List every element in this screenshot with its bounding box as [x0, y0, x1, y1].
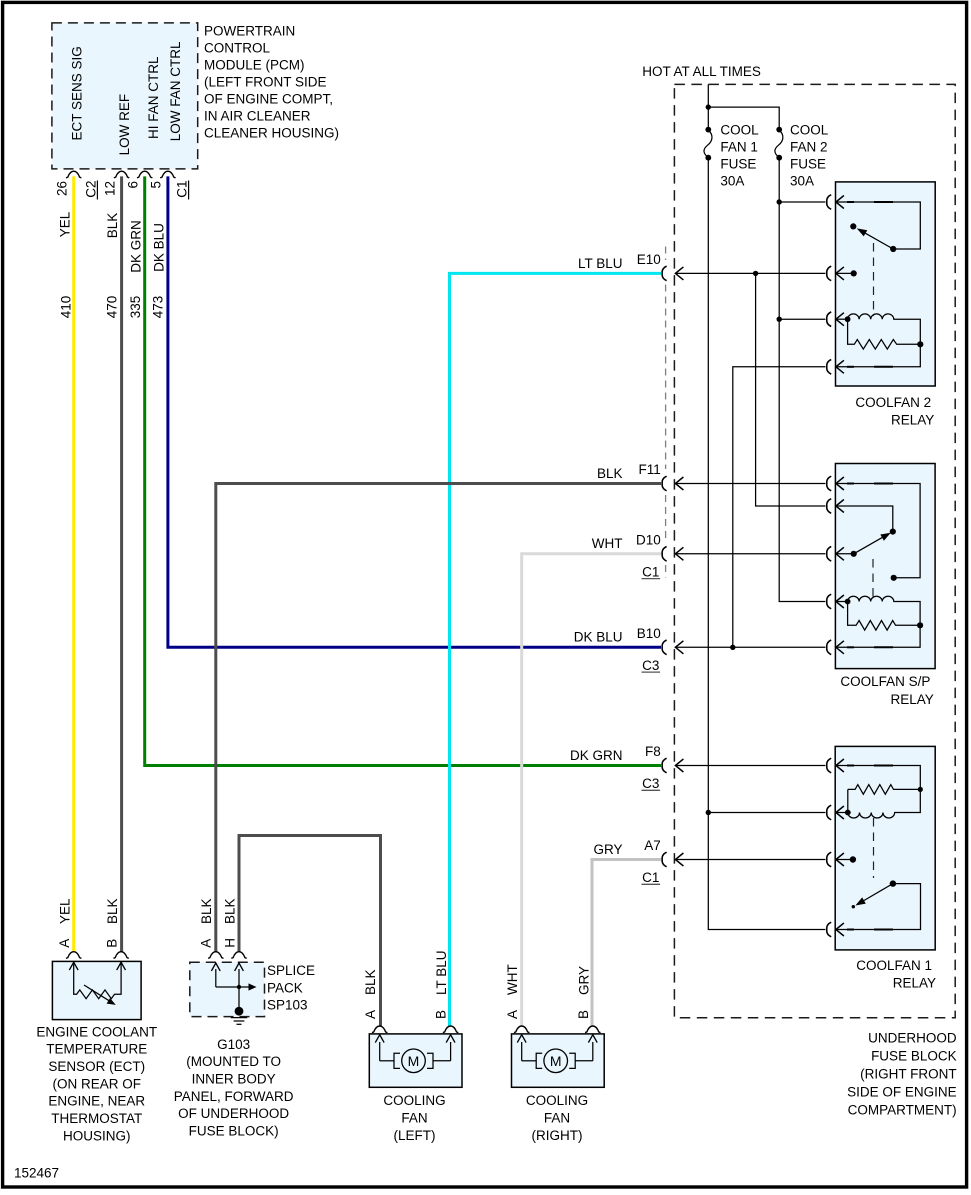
wire E10 row to CF2 pin2 and SP pin2 branch: [675, 271, 825, 506]
G103 internal pin A arrow: [211, 963, 220, 987]
fuse F1 COOL FAN 1 30A: [704, 123, 759, 189]
wire BLK from F11 to G103 A: [216, 484, 661, 953]
svg-text:FUSE: FUSE: [790, 156, 826, 171]
SP103 label text: [267, 963, 315, 1013]
fan left pin A connector: [363, 969, 388, 1032]
svg-text:C3: C3: [642, 658, 659, 673]
svg-text:COOL: COOL: [790, 123, 829, 138]
svg-text:THERMOSTAT: THERMOSTAT: [51, 1111, 142, 1126]
wire 473 DK BLU from PCM 5 to B10: [151, 176, 661, 647]
SP resistor R: [848, 602, 924, 631]
CF1 actuator dashed link: [873, 818, 875, 878]
cooling fan right motor box: [512, 1034, 605, 1087]
svg-text:(LEFT): (LEFT): [394, 1128, 436, 1143]
SP actuator dashed link: [872, 559, 874, 598]
CF1 pin 3: [827, 852, 856, 867]
cooling fan left motor box: [369, 1034, 462, 1087]
splice pack G103 box: [190, 962, 265, 1016]
connector D10 C1: [592, 532, 684, 579]
svg-text:ECT SENS SIG: ECT SENS SIG: [69, 46, 84, 140]
svg-text:COOLING: COOLING: [383, 1093, 445, 1108]
svg-text:D10: D10: [636, 532, 661, 547]
SP pin 2: [827, 499, 896, 535]
CF1 pin 4: [827, 884, 921, 937]
SP pin 1: [827, 476, 920, 581]
svg-text:A: A: [57, 939, 72, 948]
svg-text:C1: C1: [642, 564, 659, 579]
svg-text:E10: E10: [637, 252, 661, 267]
PCM pin 12 connector: [102, 171, 129, 196]
svg-text:COOLFAN S/P: COOLFAN S/P: [840, 674, 930, 689]
svg-text:B: B: [576, 1010, 591, 1019]
fan right pin B connector: [576, 966, 601, 1033]
connector F8 C3: [570, 744, 683, 791]
fan right pin A connector: [505, 964, 530, 1032]
wire CF2 relay pin1 feed: [777, 199, 826, 204]
svg-text:RELAY: RELAY: [891, 692, 934, 707]
svg-text:BLK: BLK: [223, 898, 238, 924]
svg-text:(ON REAR OF: (ON REAR OF: [53, 1076, 142, 1091]
svg-text:FAN 1: FAN 1: [720, 140, 758, 155]
svg-text:BLK: BLK: [105, 213, 120, 239]
wire F8 row to CF1 pin1: [675, 765, 825, 767]
relay K2 COOLFAN 2 RELAY box: [836, 182, 936, 386]
svg-text:INNER BODY: INNER BODY: [192, 1072, 276, 1087]
wire BLK from G103 H to cooling fan left A: [239, 836, 381, 1027]
svg-text:DK GRN: DK GRN: [129, 220, 144, 273]
svg-text:5: 5: [149, 181, 164, 189]
wire B10 row to SP pin5: [675, 646, 825, 648]
svg-text:COOLFAN 1: COOLFAN 1: [856, 958, 932, 973]
CF2 switch SW: [850, 223, 896, 252]
svg-text:(RIGHT): (RIGHT): [532, 1128, 583, 1143]
drawing number 152467: [14, 1166, 59, 1181]
CF2 coil L: [827, 312, 921, 344]
svg-text:LOW REF: LOW REF: [117, 94, 132, 156]
CF1 pin 1: [827, 758, 921, 789]
underhood fuse block dashed box: [674, 84, 955, 1017]
G103 pin H connector: [222, 898, 246, 958]
svg-text:F11: F11: [639, 462, 661, 477]
G103 splice arrow: [216, 983, 257, 990]
G103 pin A connector: [199, 898, 224, 958]
svg-text:ENGINE, NEAR: ENGINE, NEAR: [48, 1094, 145, 1109]
svg-text:335: 335: [128, 296, 143, 319]
SP pin 5: [827, 625, 920, 654]
cooling fan right label: [526, 1093, 588, 1143]
motor M1 cooling fan left: [375, 1035, 455, 1073]
op PCM module U1 (Powertrain Control Module): [52, 23, 198, 169]
svg-text:C1: C1: [642, 870, 659, 885]
G103 internal pin H arrow: [235, 963, 244, 1011]
svg-text:CLEANER HOUSING): CLEANER HOUSING): [204, 125, 339, 140]
CF2 pin 4: [827, 344, 921, 374]
svg-text:DK BLU: DK BLU: [574, 630, 623, 645]
CF2 resistor R: [848, 319, 924, 349]
node feed junction: [706, 104, 711, 109]
svg-text:H: H: [222, 938, 237, 948]
svg-text:HOUSING): HOUSING): [63, 1128, 131, 1143]
ECT pin A connector: [57, 898, 82, 958]
ECT sensor box: [52, 961, 141, 1019]
CF2 pin 1: [827, 195, 921, 249]
svg-text:YEL: YEL: [58, 211, 73, 237]
svg-text:DK GRN: DK GRN: [570, 748, 623, 763]
wire 410 YEL from PCM 26 to ECT A: [58, 176, 74, 952]
svg-text:C2: C2: [83, 181, 98, 198]
svg-text:(LEFT FRONT SIDE: (LEFT FRONT SIDE: [204, 74, 327, 89]
fuse F2 COOL FAN 2 30A: [775, 123, 829, 189]
svg-text:SENSOR (ECT): SENSOR (ECT): [48, 1059, 145, 1074]
svg-text:B: B: [105, 939, 120, 948]
connector dashed line E10-D10: [665, 247, 667, 578]
svg-text:GRY: GRY: [593, 842, 622, 857]
wire 335 DK GRN from PCM 6 to F8: [128, 176, 661, 765]
svg-text:HI FAN CTRL: HI FAN CTRL: [146, 56, 161, 139]
wire LT BLU from E10 to cooling fan left B: [450, 273, 662, 1026]
connector B10 C3: [574, 626, 684, 673]
svg-text:410: 410: [59, 296, 74, 319]
svg-text:YEL: YEL: [57, 898, 72, 924]
wire GRY from A7 to cooling fan right B: [592, 860, 661, 1027]
svg-text:MODULE (PCM): MODULE (PCM): [204, 57, 305, 72]
svg-text:473: 473: [151, 296, 166, 319]
svg-text:COMPARTMENT): COMPARTMENT): [848, 1103, 957, 1118]
CF1 resistor R: [848, 785, 923, 813]
node splice junction: [237, 985, 241, 989]
svg-text:FUSE BLOCK: FUSE BLOCK: [871, 1049, 957, 1064]
PCM connector C2 label: [83, 181, 98, 200]
svg-text:FUSE: FUSE: [720, 156, 756, 171]
svg-text:M: M: [408, 1053, 420, 1069]
svg-text:26: 26: [54, 181, 69, 196]
svg-text:A: A: [505, 1010, 520, 1019]
svg-text:PACK: PACK: [267, 980, 303, 995]
svg-text:COOLFAN 2: COOLFAN 2: [855, 395, 931, 410]
svg-text:DK BLU: DK BLU: [152, 223, 167, 272]
svg-text:POWERTRAIN: POWERTRAIN: [204, 23, 295, 38]
wire CF1 coil feed junction: [706, 810, 826, 815]
svg-text:FAN 2: FAN 2: [790, 140, 828, 155]
wire branch to fuse 2: [708, 107, 825, 601]
PCM pin 26 connector: [54, 171, 81, 196]
connector A7 C1: [593, 838, 683, 885]
svg-text:GRY: GRY: [576, 966, 591, 995]
svg-text:TEMPERATURE: TEMPERATURE: [46, 1042, 147, 1057]
svg-text:BLK: BLK: [199, 898, 214, 924]
svg-text:B10: B10: [637, 626, 661, 641]
COOLFAN 2 RELAY label: [855, 395, 934, 428]
svg-text:30A: 30A: [720, 173, 744, 188]
svg-text:LT BLU: LT BLU: [578, 256, 623, 271]
PCM connector C1 label: [175, 181, 190, 200]
wire D10 row to SP pin3: [675, 553, 825, 555]
CF2 pin 2: [827, 266, 857, 281]
wire CF2 relay pin3 feed: [777, 317, 826, 322]
svg-text:HOT AT ALL TIMES: HOT AT ALL TIMES: [642, 64, 761, 79]
CF1 coil L: [827, 789, 921, 819]
ground G103: [231, 1007, 247, 1025]
svg-text:SPLICE: SPLICE: [267, 963, 315, 978]
connector F11: [597, 462, 683, 491]
connector E10: [578, 252, 683, 281]
svg-text:ENGINE COOLANT: ENGINE COOLANT: [36, 1024, 157, 1039]
svg-text:COOLING: COOLING: [526, 1093, 588, 1108]
svg-text:LOW FAN CTRL: LOW FAN CTRL: [168, 41, 183, 141]
ECT internal pin B arrow: [117, 962, 126, 970]
svg-text:F8: F8: [645, 744, 661, 759]
SP pin 3: [827, 547, 854, 562]
COOLFAN S/P RELAY label: [840, 674, 933, 707]
relay K3 COOLFAN S/P RELAY box: [835, 464, 935, 669]
svg-text:BLK: BLK: [363, 969, 378, 995]
svg-text:PANEL, FORWARD: PANEL, FORWARD: [174, 1089, 294, 1104]
svg-text:FAN: FAN: [401, 1111, 427, 1126]
SP coil L: [827, 594, 920, 625]
wire WHT from D10 to cooling fan right A: [522, 554, 661, 1026]
wire A7 row to CF1 pin3: [675, 859, 825, 861]
svg-text:C1: C1: [175, 181, 190, 198]
svg-text:470: 470: [105, 296, 120, 319]
svg-text:IN AIR CLEANER: IN AIR CLEANER: [204, 108, 311, 123]
svg-text:C3: C3: [642, 776, 659, 791]
ECT pin B connector: [105, 898, 129, 958]
svg-text:FAN: FAN: [544, 1111, 570, 1126]
svg-text:30A: 30A: [790, 173, 814, 188]
svg-text:A7: A7: [644, 838, 661, 853]
wire F11 row to SP pin1: [675, 483, 825, 485]
svg-text:G103: G103: [217, 1037, 250, 1052]
svg-text:M: M: [550, 1053, 562, 1069]
underhood fuse block label: [847, 1031, 957, 1118]
CF2 actuator dashed link: [873, 243, 875, 316]
svg-text:6: 6: [125, 181, 140, 189]
svg-text:A: A: [199, 939, 214, 948]
ECT label text: [36, 1024, 157, 1143]
wire 470 BLK from PCM 12 to ECT B: [105, 176, 122, 952]
wire CF2 pin4 to B10 row: [730, 367, 825, 650]
relay K1 COOLFAN 1 RELAY box: [835, 746, 935, 950]
G103 label text: [174, 1037, 294, 1139]
CF1 switch SW: [852, 880, 897, 908]
svg-text:OF ENGINE COMPT,: OF ENGINE COMPT,: [204, 91, 333, 106]
svg-text:RELAY: RELAY: [891, 412, 934, 427]
svg-text:(RIGHT FRONT: (RIGHT FRONT: [860, 1067, 957, 1082]
cooling fan left label: [383, 1093, 445, 1143]
motor M2 cooling fan right: [517, 1035, 597, 1073]
PCM pin 6 connector: [125, 171, 152, 188]
fan left pin B connector: [434, 950, 459, 1032]
svg-text:CONTROL: CONTROL: [204, 40, 270, 55]
svg-text:LT BLU: LT BLU: [434, 950, 449, 995]
svg-text:RELAY: RELAY: [893, 976, 936, 991]
svg-text:152467: 152467: [14, 1166, 59, 1181]
svg-text:FUSE BLOCK): FUSE BLOCK): [189, 1123, 279, 1138]
svg-text:SP103: SP103: [267, 998, 308, 1013]
svg-text:WHT: WHT: [592, 536, 623, 551]
svg-text:BLK: BLK: [105, 898, 120, 924]
PCM pin 5 connector: [149, 171, 176, 188]
svg-text:COOL: COOL: [720, 123, 759, 138]
svg-text:SIDE OF ENGINE: SIDE OF ENGINE: [847, 1085, 957, 1100]
COOLFAN 1 RELAY label: [856, 958, 936, 991]
svg-text:B: B: [434, 1010, 449, 1019]
svg-text:(MOUNTED TO: (MOUNTED TO: [186, 1054, 281, 1069]
ECT internal pin A arrow: [69, 962, 78, 970]
svg-text:12: 12: [102, 181, 117, 196]
PCM label text: [204, 23, 339, 140]
svg-text:WHT: WHT: [505, 964, 520, 995]
ECT thermistor RT1: [74, 962, 121, 1005]
HOT AT ALL TIMES label: [642, 64, 761, 79]
svg-text:OF UNDERHOOD: OF UNDERHOOD: [178, 1106, 289, 1121]
SP switch SW: [851, 533, 891, 557]
svg-text:BLK: BLK: [597, 466, 623, 481]
wire power feed vertical fuse 1: [708, 84, 825, 929]
svg-text:A: A: [363, 1010, 378, 1019]
svg-text:UNDERHOOD: UNDERHOOD: [868, 1031, 957, 1046]
